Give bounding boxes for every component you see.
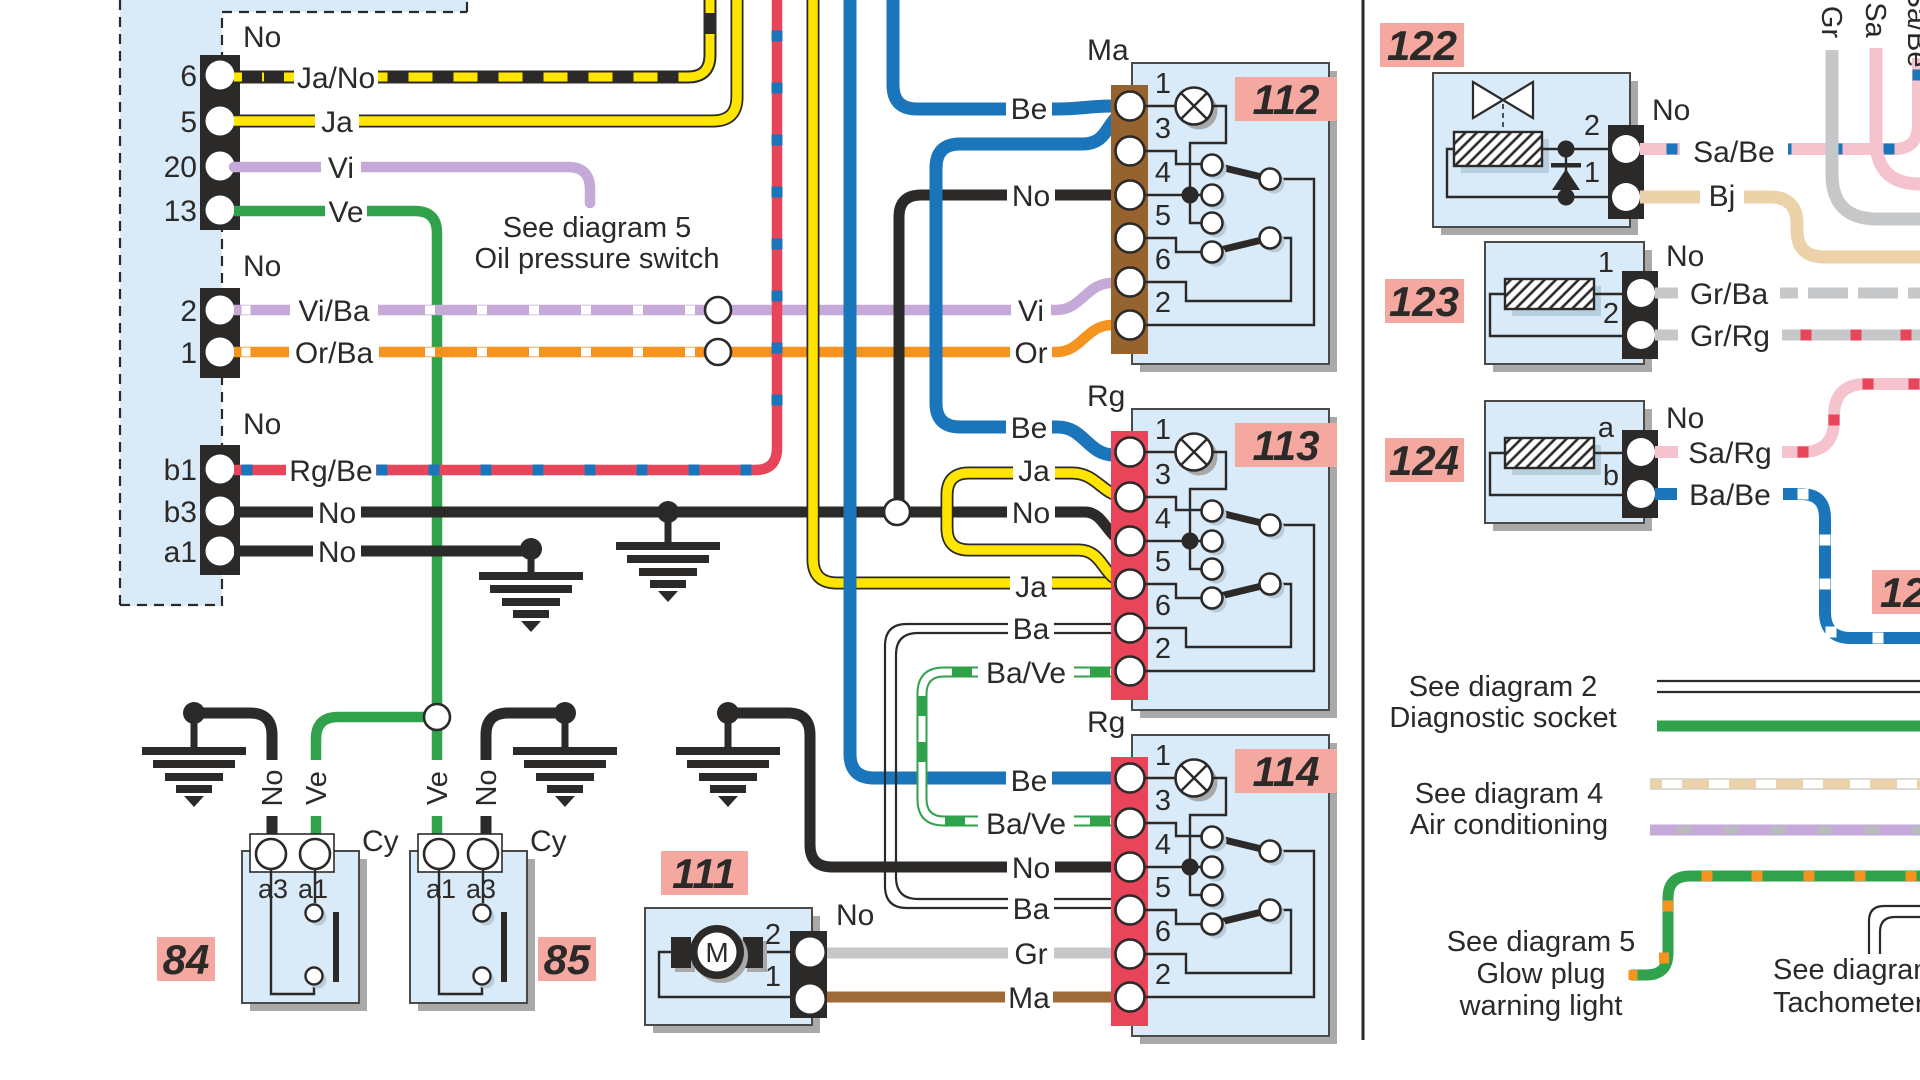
ground dot G4	[554, 702, 576, 724]
svg-text:Sa/Rg: Sa/Rg	[1688, 437, 1771, 470]
valve unit 122 connector strip (No)	[1608, 125, 1644, 219]
svg-text:Vi: Vi	[328, 152, 354, 185]
unit 113 internal wire pin 2 to arm 1 end	[1144, 525, 1314, 671]
svg-text:b1: b1	[164, 454, 197, 487]
wire label Gr (rotated, top)	[1816, 0, 1848, 50]
wire label Ve (rotated, switch 84)	[301, 760, 331, 816]
wire label Ja (long, at unit 113)	[1010, 569, 1052, 603]
svg-text:2: 2	[1155, 959, 1171, 991]
switch 85 internal wire to lower contact	[439, 869, 482, 994]
svg-text:6: 6	[1155, 916, 1171, 948]
unit 114 internal wire node to contact 3	[1190, 867, 1201, 895]
wire label Vi	[321, 150, 361, 184]
wire No ground to unit 114 pin 4	[728, 713, 1128, 867]
wire label No (rotated, switch 84)	[257, 760, 287, 816]
wire label Or (at unit 112)	[1010, 335, 1052, 369]
unit 113 contact 3	[1206, 563, 1227, 584]
wire Ja link unit 113 pin 3 to pin 5	[947, 473, 1128, 582]
wire Be from top to unit 114 pin 1	[850, 0, 1128, 778]
unit 112 internal wire node to contact 3	[1190, 195, 1201, 223]
unit 114 internal wire pin 3 to contact 1	[1144, 823, 1201, 836]
unit 112 pin 6	[1116, 268, 1145, 297]
svg-text:20: 20	[164, 151, 197, 184]
unit 112 arm end 1	[1264, 173, 1285, 194]
svg-text:a1: a1	[164, 536, 197, 569]
ground G4 stem	[562, 713, 569, 747]
unit 113 internal junction	[1182, 533, 1199, 550]
wire label Vi/Ba	[290, 293, 378, 327]
svg-text:a3: a3	[466, 874, 496, 904]
wire Ve down to switch 85	[432, 717, 443, 840]
svg-text:b3: b3	[164, 496, 197, 529]
svg-text:3: 3	[1155, 113, 1171, 145]
switch 84 body	[250, 859, 367, 1011]
wire Vi from ECU pin 20	[234, 167, 590, 203]
svg-text:No: No	[1012, 497, 1050, 530]
wire label Ma (unit 114)	[1005, 980, 1053, 1014]
switch 84 contact bar	[333, 912, 339, 982]
wire Gr/Rg from resistor unit 123 pin 2	[1655, 330, 1920, 341]
svg-text:Gr/Ba: Gr/Ba	[1690, 278, 1769, 311]
svg-text:1: 1	[180, 337, 197, 370]
wire Vi/Gr to air conditioning	[1650, 825, 1920, 836]
unit 113 number label	[1235, 423, 1337, 467]
wire label Ja	[315, 104, 359, 138]
wire Bj/Ba to air conditioning	[1650, 778, 1920, 780]
svg-text:112: 112	[1253, 76, 1320, 123]
svg-text:2: 2	[1584, 110, 1600, 142]
motor 111 pin 2	[796, 938, 825, 967]
svg-text:See diagram 6: See diagram 6	[1773, 954, 1920, 986]
switch 84 lower contact	[310, 972, 327, 989]
svg-text:5: 5	[180, 106, 197, 139]
svg-text:2: 2	[1155, 287, 1171, 319]
wire Sa from top right	[1876, 0, 1920, 184]
unit 112 internal wire pin 4 to contact 2	[1144, 194, 1201, 196]
ECU unit 120 body (light blue area)	[120, 0, 468, 12]
svg-text:Cy: Cy	[362, 825, 399, 858]
wire label No (b3)	[313, 495, 361, 529]
svg-text:Glow plug: Glow plug	[1477, 958, 1606, 990]
wire label Be (unit 113)	[1006, 410, 1052, 444]
unit 112 internal wire pin 3 to contact 1	[1144, 151, 1201, 164]
unit 114 internal wire pin 1 to lamp	[1144, 777, 1176, 779]
svg-text:M: M	[705, 937, 728, 968]
unit 112 internal wire pin 6 to arm 2 end	[1144, 238, 1291, 301]
unit 114 pin 4	[1116, 853, 1145, 882]
svg-text:No: No	[257, 769, 289, 806]
wire label Ja/No	[294, 60, 378, 94]
svg-text:Gr/Rg: Gr/Rg	[1690, 320, 1770, 353]
unit 113 body	[1140, 417, 1337, 718]
motor 111 body	[653, 916, 820, 1033]
valve unit 122 valve symbol	[1473, 82, 1503, 118]
svg-text:1: 1	[1155, 414, 1171, 446]
svg-text:6: 6	[1155, 244, 1171, 276]
wire to tachometer (screened pair)	[1869, 906, 1920, 954]
svg-text:Be: Be	[1011, 765, 1048, 798]
wire Bj from valve unit 122 pin 1	[1640, 197, 1920, 257]
wire Ve from ECU pin 13	[234, 211, 437, 717]
ECU pin b1	[206, 455, 235, 484]
svg-text:2: 2	[1155, 633, 1171, 665]
inline connector on Or/Ba wire	[705, 339, 731, 365]
svg-text:1: 1	[1584, 157, 1600, 189]
unit 112 internal wire pin 2 to arm 1 end	[1144, 179, 1314, 325]
unit 113 internal wire pin 1 to lamp	[1144, 451, 1176, 453]
ground G1 stem	[665, 512, 672, 542]
ground G2	[479, 572, 583, 632]
resistor unit 123 body	[1493, 250, 1652, 372]
junction circle on Ve wire	[424, 704, 450, 730]
unit 114 internal wire lamp to common node	[1190, 778, 1226, 866]
junction on b3 rail	[884, 499, 910, 525]
wire Ba/Ve link unit 113 pin 2 to unit 114 pin 3	[922, 672, 1128, 821]
wire label Be (unit 114)	[1006, 763, 1052, 797]
svg-text:6: 6	[180, 60, 197, 93]
wire label Sa/Be (rotated, top)	[1902, 0, 1920, 58]
wire label Rg/Be	[286, 453, 376, 487]
svg-text:Be: Be	[1011, 412, 1048, 445]
unit 114 pin 1	[1116, 764, 1145, 793]
unit 112 contact 3	[1206, 217, 1227, 238]
wire Or/Ba from ECU pin 1 to unit 112 pin 2	[234, 325, 1128, 352]
unit 112 internal junction	[1182, 187, 1199, 204]
svg-text:3: 3	[1155, 785, 1171, 817]
unit 112 warning lamp	[1181, 93, 1218, 130]
wire Sa/Rg from resistor unit 124 pin a	[1655, 384, 1920, 452]
svg-text:Diagnostic socket: Diagnostic socket	[1389, 702, 1616, 734]
svg-text:No: No	[1666, 402, 1704, 435]
valve unit 122 pin 1	[1612, 183, 1640, 211]
ground dot G5	[717, 702, 739, 724]
unit 114 selector arm 2	[1212, 910, 1270, 924]
valve unit 122 number label	[1380, 23, 1464, 67]
unit 113 pin 5	[1116, 570, 1145, 599]
svg-text:13: 13	[164, 195, 197, 228]
valve unit 122 junction dots	[1558, 141, 1575, 158]
unit 112 arm end 2	[1264, 232, 1285, 253]
svg-text:114: 114	[1253, 748, 1320, 795]
svg-text:No: No	[243, 250, 281, 283]
svg-text:1: 1	[1155, 740, 1171, 772]
unit 113 internal wire lamp to common node	[1190, 452, 1226, 540]
svg-text:Rg: Rg	[1087, 706, 1125, 739]
resistor unit 123 pin 1	[1627, 279, 1655, 307]
svg-text:Be: Be	[1011, 93, 1048, 126]
svg-text:122: 122	[1387, 22, 1457, 69]
unit 114 pin 3	[1116, 809, 1145, 838]
motor 111 internal wire pin 1	[659, 952, 795, 997]
motor 111 number label	[661, 851, 748, 895]
wire label Ve	[325, 194, 367, 228]
unit 114 pin 5	[1116, 896, 1145, 925]
switch 84 upper contact	[310, 909, 327, 926]
unit 114 connector strip (Rg)	[1111, 757, 1148, 1026]
wire label Ba (unit 113)	[1008, 611, 1054, 645]
wire label Sa (rotated, top)	[1860, 0, 1892, 48]
unit 112 pin 3	[1116, 137, 1145, 166]
svg-text:Ba/Ve: Ba/Ve	[986, 657, 1066, 690]
wire No from unit 112 pin 4 down to rail junction	[899, 195, 1128, 505]
ground G4	[513, 747, 617, 807]
svg-text:Gr: Gr	[1815, 6, 1847, 39]
motor 111 brushes	[675, 941, 695, 972]
unit 113 internal wire pin 5 to contact 4	[1144, 584, 1201, 598]
unit 112 pin 2	[1116, 311, 1145, 340]
resistor unit 124 body	[1493, 409, 1652, 531]
wire Ma from motor 111 pin 1 to unit 114 pin 2	[822, 992, 1128, 1003]
svg-text:123: 123	[1389, 278, 1459, 325]
svg-text:Sa/Be: Sa/Be	[1693, 136, 1775, 169]
svg-text:No: No	[243, 21, 281, 54]
wire Ve to diagnostic socket	[1657, 721, 1920, 732]
unit 114 internal junction	[1182, 859, 1199, 876]
unit 112 contact 2	[1206, 189, 1227, 210]
wire Ve/Or to glow plug warning light	[1631, 876, 1920, 975]
wire label Sa/Be	[1680, 134, 1788, 168]
unit 112 pin 5	[1116, 224, 1145, 253]
switch 85 internal wire to upper contact	[482, 869, 484, 903]
svg-text:Vi/Ba: Vi/Ba	[298, 295, 369, 328]
unit 112 pin 4	[1116, 181, 1145, 210]
svg-text:Ba/Ve: Ba/Ve	[986, 808, 1066, 841]
unit 112 number label	[1235, 77, 1337, 121]
wire Rg/Be from ECU pin b1 to top	[234, 0, 777, 470]
svg-text:125: 125	[1880, 569, 1920, 616]
wire label Ba/Be	[1677, 477, 1783, 511]
unit 113 selector arm 1	[1212, 511, 1270, 525]
switch 84 pin a3	[256, 839, 286, 869]
unit 112 selector arm 2	[1212, 238, 1270, 252]
wire No ground to switch 85	[486, 713, 565, 840]
wire label Gr/Ba	[1678, 276, 1780, 310]
svg-text:Ve: Ve	[422, 771, 454, 805]
svg-text:Ba/Be: Ba/Be	[1689, 479, 1771, 512]
switch 84 pin a1	[300, 839, 330, 869]
unit 113 pin 4	[1116, 527, 1145, 556]
ECU pin a1	[206, 537, 235, 566]
svg-text:Tachometer: Tachometer	[1773, 987, 1920, 1019]
wire label Ja (U link)	[1013, 453, 1055, 487]
unit 114 internal wire pin 4 to contact 2	[1144, 866, 1201, 868]
wire Ja from ECU pin 5 to top	[234, 0, 737, 121]
resistor unit 124 resistor	[1512, 445, 1601, 475]
wire Ba screened pair inner	[896, 633, 1128, 899]
ECU pin 2	[206, 296, 235, 325]
unit 112 contact 1	[1206, 159, 1227, 180]
svg-text:No: No	[1666, 240, 1704, 273]
unit 112 internal wire pin 1 to lamp	[1144, 105, 1176, 107]
unit 113 warning lamp	[1181, 439, 1218, 476]
svg-text:Or/Ba: Or/Ba	[295, 337, 374, 370]
svg-text:a3: a3	[258, 874, 288, 904]
switch 85 connector outline (Cy)	[418, 834, 502, 872]
resistor unit 124 number label	[1385, 438, 1464, 482]
unit 114 selector arm 1	[1212, 837, 1270, 851]
unit 113 internal wire pin 6 to arm 2 end	[1144, 584, 1291, 647]
unit 113 pin 3	[1116, 483, 1145, 512]
svg-text:Ve: Ve	[301, 771, 333, 805]
unit 112 internal wire lamp to common node	[1190, 106, 1226, 194]
svg-text:See diagram 5: See diagram 5	[1447, 926, 1636, 958]
svg-text:5: 5	[1155, 872, 1171, 904]
wire No ground to switch 84	[194, 713, 272, 840]
unit 114 body	[1140, 743, 1337, 1044]
unit 114 contact 4	[1206, 918, 1227, 939]
svg-text:Ma: Ma	[1008, 982, 1050, 1015]
wire Ba/Be from resistor unit 124 pin b	[1655, 494, 1920, 638]
wire label Ba/Ve (unit 113)	[978, 655, 1074, 689]
unit 113 internal wire pin 3 to contact 1	[1144, 497, 1201, 510]
ECU pin 20	[206, 152, 235, 181]
wire label Ba (unit 114)	[1008, 891, 1054, 925]
svg-text:Bj: Bj	[1709, 180, 1736, 213]
valve unit 122 diode	[1551, 163, 1581, 168]
switch 85 contact bar	[501, 912, 507, 982]
ECU pin b3	[206, 497, 235, 526]
wire label No (at unit 114)	[1007, 850, 1055, 884]
unit 113 pin 2	[1116, 657, 1145, 686]
svg-text:113: 113	[1253, 422, 1320, 469]
svg-text:Air conditioning: Air conditioning	[1410, 809, 1608, 841]
svg-text:No: No	[1012, 180, 1050, 213]
unit 112 contact 4	[1206, 246, 1227, 267]
svg-text:No: No	[836, 899, 874, 932]
unit 113 arm end 2	[1264, 578, 1285, 599]
unit 114 contact 1	[1206, 831, 1227, 852]
unit 113 contact 4	[1206, 592, 1227, 613]
wire label Be (unit 112)	[1006, 91, 1052, 125]
svg-text:2: 2	[1603, 298, 1619, 330]
unit 114 pin 2	[1116, 983, 1145, 1012]
switch 85 upper contact	[478, 909, 495, 926]
unit 125 number label (clipped)	[1872, 570, 1920, 614]
svg-text:Ja: Ja	[1018, 455, 1050, 488]
resistor unit 124 connector strip (No)	[1622, 430, 1658, 518]
unit 112 pin 1	[1116, 92, 1145, 121]
svg-text:Oil pressure switch: Oil pressure switch	[475, 243, 720, 275]
unit 114 internal wire pin 5 to contact 4	[1144, 910, 1201, 924]
svg-text:84: 84	[163, 936, 210, 983]
svg-text:4: 4	[1155, 503, 1171, 535]
svg-text:No: No	[471, 769, 503, 806]
unit 112 connector strip (Ma)	[1111, 85, 1148, 354]
ground G3 stem	[191, 713, 198, 747]
svg-text:Ja/No: Ja/No	[297, 62, 375, 95]
switch 85 body	[418, 859, 535, 1011]
switch 85 number label	[538, 937, 596, 981]
valve unit 122 solenoid coil	[1461, 139, 1549, 173]
svg-text:Ba: Ba	[1013, 613, 1050, 646]
unit 112 body	[1140, 71, 1337, 372]
wire Sa/Be from valve unit 122 pin 2	[1640, 0, 1918, 149]
svg-text:4: 4	[1155, 157, 1171, 189]
wire label Vi (at unit 112)	[1011, 293, 1051, 327]
wire label Or/Ba	[289, 335, 379, 369]
motor 111 pin 1	[796, 985, 825, 1014]
unit 113 internal wire node to contact 3	[1190, 541, 1201, 569]
ground dot G3	[183, 702, 205, 724]
svg-text:No: No	[1652, 94, 1690, 127]
resistor unit 123 connector strip (No)	[1622, 271, 1658, 359]
wire label Ve (rotated, switch 85)	[422, 760, 452, 816]
svg-text:b: b	[1603, 460, 1619, 492]
svg-text:4: 4	[1155, 829, 1171, 861]
wire label Ba/Ve (unit 114)	[978, 806, 1074, 840]
svg-text:Ja: Ja	[321, 106, 353, 139]
svg-text:Ba: Ba	[1013, 893, 1050, 926]
unit 113 pin 6	[1116, 614, 1145, 643]
switch 84 internal wire to lower contact	[271, 869, 314, 994]
switch 84 connector outline (Cy)	[250, 834, 334, 872]
svg-text:Rg: Rg	[1087, 380, 1125, 413]
svg-text:111: 111	[672, 850, 736, 897]
svg-text:5: 5	[1155, 546, 1171, 578]
svg-text:No: No	[318, 497, 356, 530]
valve unit 122 pin 2	[1612, 135, 1640, 163]
svg-text:5: 5	[1155, 200, 1171, 232]
wire label No (a1)	[313, 534, 361, 568]
svg-text:124: 124	[1389, 437, 1459, 484]
ECU connector strip A (No, pins 6/5/20/13)	[200, 55, 240, 230]
ECU pin 1	[206, 338, 235, 367]
svg-text:a1: a1	[298, 874, 328, 904]
switch 85 pin a1	[424, 839, 454, 869]
resistor unit 124 pin b	[1627, 480, 1655, 508]
wire label No (at unit 113)	[1007, 495, 1055, 529]
unit 113 internal wire pin 4 to contact 2	[1144, 540, 1201, 542]
ground G1	[616, 542, 720, 602]
ECU unit 120 dashed outline	[120, 0, 467, 606]
unit 114 arm end 2	[1264, 904, 1285, 925]
switch 84 number label	[157, 937, 215, 981]
wire label Gr/Rg	[1678, 318, 1782, 352]
wire No from ECU pin a1	[234, 546, 526, 557]
svg-text:warning light: warning light	[1459, 990, 1623, 1022]
ECU pin 5	[206, 107, 235, 136]
ground G5	[676, 747, 780, 807]
unit 112 internal wire pin 5 to contact 4	[1144, 238, 1201, 252]
unit 114 arm end 1	[1264, 845, 1285, 866]
ground G3	[142, 747, 246, 807]
wire Gr from motor 111 pin 2 to unit 114 pin 6	[822, 948, 1128, 959]
resistor unit 124 pin a	[1627, 438, 1655, 466]
wire Ja/No from ECU pin 6 to top	[234, 0, 710, 77]
svg-text:Sa: Sa	[1859, 2, 1891, 38]
svg-text:No: No	[1012, 852, 1050, 885]
unit 113 pin 1	[1116, 438, 1145, 467]
section divider	[1362, 0, 1365, 1040]
ECU connector strip C (No, pins b1/b3/a1)	[200, 445, 240, 575]
valve unit 122 body	[1441, 81, 1638, 235]
valve unit 122 internal wires	[1542, 148, 1614, 150]
resistor unit 123 number label	[1385, 279, 1464, 323]
wire label No (rotated, switch 85)	[471, 760, 501, 816]
unit 113 selector arm 2	[1212, 584, 1270, 598]
resistor unit 123 resistor	[1512, 286, 1601, 316]
svg-text:See diagram 2: See diagram 2	[1409, 671, 1598, 703]
svg-text:Cy: Cy	[530, 825, 567, 858]
svg-text:Ve: Ve	[328, 196, 363, 229]
svg-text:1: 1	[1598, 247, 1614, 279]
wire Ba screened pair outer	[885, 624, 1128, 908]
wire label Gr (unit 114)	[1008, 936, 1054, 970]
motor 111 symbol M	[694, 929, 748, 983]
wire Ve branch to switch 84	[316, 717, 437, 840]
svg-text:Ma: Ma	[1087, 34, 1129, 67]
ground G5 stem	[725, 713, 732, 747]
